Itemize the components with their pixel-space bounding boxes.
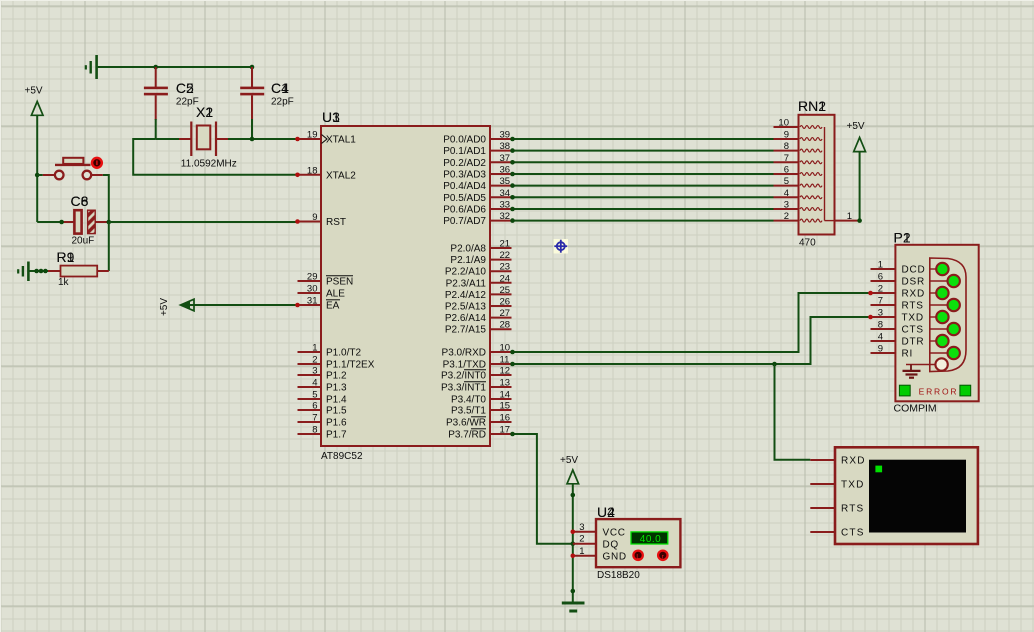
pin 31 EA (U3 left): [298, 296, 341, 312]
power +5V (RN1): [847, 121, 866, 221]
pin 3 TXD (P1): [871, 308, 924, 324]
junction dots on R9 ground wire: [34, 269, 39, 274]
pin 2 DQ (U2): [573, 534, 619, 551]
power +5V (reset circuit): [25, 86, 44, 223]
svg-text:+5V: +5V: [25, 86, 43, 97]
svg-text:TXD: TXD: [902, 313, 924, 324]
junction below +5V: [571, 493, 576, 498]
wire RST net to chip pin 9: [109, 221, 298, 223]
red dot COMPIM RXD: [868, 291, 873, 296]
svg-text:22pF: 22pF: [271, 97, 294, 108]
DB9 contact: [930, 311, 949, 323]
svg-text:DCD: DCD: [902, 265, 926, 276]
svg-text:38: 38: [500, 141, 511, 152]
svg-text:P3.3/INT1: P3.3/INT1: [441, 383, 486, 394]
wire C5 junction to crystal: [156, 138, 179, 140]
svg-text:CTS: CTS: [841, 528, 865, 539]
connector P1 COMPIM: [894, 230, 979, 415]
DB9 contact: [930, 335, 949, 347]
svg-text:XTAL2: XTAL2: [326, 170, 356, 181]
pin 3 P1.2 (U3 left): [298, 366, 348, 382]
svg-text:+5V: +5V: [847, 121, 865, 132]
button - (DS18B20 down): [633, 551, 642, 561]
pin 36 P0.3/AD3 (U3 right): [443, 165, 511, 181]
svg-text:C5: C5: [176, 80, 194, 96]
pin 25 P2.4/A12 (U3 right): [445, 285, 512, 301]
svg-text:P3.2/INT0: P3.2/INT0: [441, 371, 486, 382]
DB9 contact: [930, 347, 960, 359]
temperature display 40.0: [631, 532, 668, 545]
svg-text:470: 470: [799, 238, 816, 249]
pin 6 P1.5 (U3 left): [298, 401, 348, 417]
wire ground to R9: [28, 270, 48, 272]
pin 1 GND (U2): [573, 546, 627, 563]
svg-text:9: 9: [312, 212, 317, 223]
svg-text:4: 4: [878, 332, 883, 343]
wire P0.6 to RN1: [512, 208, 774, 210]
svg-text:P0.3/AD3: P0.3/AD3: [443, 170, 486, 181]
svg-text:18: 18: [307, 165, 318, 176]
svg-text:P1.2: P1.2: [326, 371, 347, 382]
svg-text:RXD: RXD: [841, 456, 866, 467]
svg-text:COMPIM: COMPIM: [894, 403, 937, 415]
svg-text:RTS: RTS: [902, 301, 924, 312]
pin 16 P3.6/WR (U3 right): [446, 413, 512, 429]
pin 19 XTAL1 (U3 left): [298, 130, 357, 146]
junction DQ net: [571, 541, 576, 546]
svg-text:P0.4/AD4: P0.4/AD4: [443, 181, 486, 192]
svg-text:P1.7: P1.7: [326, 430, 347, 441]
svg-text:27: 27: [500, 308, 511, 319]
svg-text:35: 35: [500, 176, 511, 187]
svg-text:6: 6: [312, 401, 317, 412]
pin 7 P1.6 (U3 left): [298, 413, 348, 429]
wire P0.1 to RN1: [512, 150, 774, 152]
pin 11 P3.1/TXD (U3 right): [443, 355, 512, 371]
DB9 outline inside P1: [930, 258, 966, 372]
svg-text:P0.0/AD0: P0.0/AD0: [443, 135, 486, 146]
red dot COMPIM TXD: [868, 315, 873, 320]
capacitor C8 20uF (electrolytic): [62, 193, 109, 247]
svg-text:EA: EA: [326, 301, 340, 312]
svg-text:P2.0/A8: P2.0/A8: [450, 244, 486, 255]
pin 4 DTR (P1): [871, 332, 925, 348]
svg-text:3: 3: [312, 366, 317, 377]
svg-text:20uF: 20uF: [72, 236, 95, 247]
svg-text:P2.2/A10: P2.2/A10: [445, 267, 487, 278]
svg-text:5: 5: [784, 176, 789, 187]
wire P0.0 to RN1: [512, 138, 774, 140]
svg-text:P1.0/T2: P1.0/T2: [326, 348, 361, 359]
svg-text:P3.7/RD: P3.7/RD: [448, 430, 486, 441]
pin 14 P3.4/T0 (U3 right): [451, 390, 512, 406]
wire C5 bottom to XTAL1 net: [155, 119, 157, 139]
svg-text:P2.7/A15: P2.7/A15: [445, 325, 487, 336]
pin 24 P2.3/A11 (U3 right): [446, 273, 512, 289]
DB9 contact: [930, 263, 949, 275]
red dot pin9: [295, 219, 300, 224]
virtual terminal: [810, 447, 978, 544]
svg-text:P1.4: P1.4: [326, 395, 347, 406]
svg-text:1: 1: [312, 343, 317, 354]
pin 9 RI (P1): [871, 344, 914, 360]
resistor R9 1k: [48, 249, 109, 288]
svg-text:8: 8: [878, 320, 883, 331]
svg-text:3: 3: [878, 308, 883, 319]
svg-text:9: 9: [878, 344, 883, 355]
svg-text:39: 39: [500, 130, 511, 141]
pin 39 P0.0/AD0 (U3 right): [443, 130, 511, 146]
svg-text:22: 22: [500, 250, 511, 261]
wire P0.3 to RN1: [512, 173, 774, 175]
svg-text:R9: R9: [57, 249, 75, 265]
pin 26 P2.5/A13 (U3 right): [445, 297, 512, 313]
junction C8 left: [59, 220, 64, 225]
svg-text:4: 4: [784, 188, 789, 199]
junction RN1 pin1 / +5V: [857, 218, 862, 223]
pin 1 P1.0/T2 (U3 left): [298, 343, 362, 359]
svg-text:P1.3: P1.3: [326, 383, 347, 394]
red dot pin18: [295, 173, 300, 178]
svg-text:X2: X2: [196, 104, 213, 120]
wire ground to C5/C4 tops: [97, 66, 252, 68]
svg-text:RST: RST: [326, 217, 346, 228]
svg-text:40.0: 40.0: [640, 534, 661, 545]
pin 29 PSEN (U3 left): [298, 272, 354, 288]
junction TXD / terminal branch: [772, 362, 777, 367]
pin 30 ALE (U3 left): [298, 284, 346, 300]
svg-text:P3.4/T0: P3.4/T0: [451, 395, 486, 406]
microcontroller U3 AT89C52: [321, 109, 490, 462]
pin 21 P2.0/A8 (U3 right): [450, 239, 511, 255]
pin 5 P1.4 (U3 left): [298, 390, 348, 406]
svg-text:P0.1/AD1: P0.1/AD1: [443, 146, 486, 157]
power +5V (EA pin): [159, 298, 298, 316]
wire P3.7/RD to DS18B20 DQ: [512, 434, 574, 544]
svg-text:16: 16: [500, 413, 511, 424]
pin 17 P3.7/RD (U3 right): [448, 425, 511, 441]
pin 10 P3.0/RXD (U3 right): [442, 343, 512, 359]
svg-text:P3.5/T1: P3.5/T1: [451, 406, 486, 417]
wire P3.1/TXD to COMPIM TXD: [512, 317, 871, 364]
svg-text:1: 1: [579, 546, 584, 557]
DB9 shell contact (white): [906, 358, 948, 370]
capacitor C4 22pF: [240, 67, 294, 120]
svg-text:23: 23: [500, 262, 511, 273]
svg-text:RI: RI: [902, 349, 914, 360]
svg-text:P1.1/T2EX: P1.1/T2EX: [326, 360, 375, 371]
pin 15 P3.5/T1 (U3 right): [451, 401, 512, 417]
pin 8 CTS (P1): [871, 320, 924, 336]
svg-text:8: 8: [312, 425, 317, 436]
push button (reset): [37, 158, 103, 180]
wire C4 bottom to XTAL1 net: [251, 119, 253, 139]
junction C8 right / RST net: [107, 220, 112, 225]
svg-text:6: 6: [784, 165, 789, 176]
svg-text:2: 2: [878, 284, 883, 295]
svg-text:P0.5/AD5: P0.5/AD5: [443, 193, 486, 204]
svg-text:RXD: RXD: [902, 289, 926, 300]
svg-text:U4: U4: [597, 504, 615, 520]
svg-text:P1.5: P1.5: [326, 406, 347, 417]
capacitor C5 22pF: [144, 67, 199, 120]
ground (DS18B20): [562, 603, 585, 611]
svg-text:4: 4: [312, 378, 317, 389]
wire C8 junction down to R9: [108, 222, 110, 271]
svg-text:r: r: [662, 554, 664, 560]
svg-text:30: 30: [307, 284, 318, 295]
svg-text:C4: C4: [271, 80, 289, 96]
svg-text:3: 3: [579, 522, 584, 533]
pin 1 DCD (P1): [871, 260, 926, 276]
svg-text:XTAL1: XTAL1: [326, 135, 356, 146]
svg-text:17: 17: [500, 425, 511, 436]
svg-text:P3.0/RXD: P3.0/RXD: [442, 348, 486, 359]
svg-text:36: 36: [500, 165, 511, 176]
svg-text:28: 28: [500, 320, 511, 331]
svg-text:VCC: VCC: [603, 527, 626, 538]
ground (COMPIM shell): [903, 365, 921, 378]
svg-text:13: 13: [500, 378, 511, 389]
svg-text:26: 26: [500, 297, 511, 308]
pin 35 P0.4/AD4 (U3 right): [443, 176, 511, 192]
svg-text:32: 32: [500, 211, 511, 222]
pin 32 P0.7/AD7 (U3 right): [443, 211, 511, 227]
svg-text:P0.2/AD2: P0.2/AD2: [443, 158, 486, 169]
svg-text:P2.6/A14: P2.6/A14: [445, 313, 487, 324]
svg-text:21: 21: [500, 239, 511, 250]
svg-text:P3.6/WR: P3.6/WR: [446, 418, 486, 429]
svg-text:34: 34: [500, 188, 511, 199]
origin marker: [554, 239, 569, 254]
sensor U2 DS18B20: [596, 504, 680, 581]
junction at C4 top: [250, 65, 255, 70]
pin 2 P1.1/T2EX (U3 left): [298, 355, 375, 371]
wire +5V line to C8: [37, 221, 61, 223]
pin 13 P3.3/INT1 (U3 right): [441, 378, 512, 394]
svg-text:ALE: ALE: [326, 289, 345, 300]
svg-text:2: 2: [312, 355, 317, 366]
svg-text:14: 14: [500, 390, 511, 401]
DB9 contact: [930, 275, 960, 287]
svg-text:DS18B20: DS18B20: [597, 570, 640, 581]
svg-text:31: 31: [307, 296, 318, 307]
svg-text:P0.7/AD7: P0.7/AD7: [443, 216, 486, 227]
svg-text:2: 2: [579, 534, 584, 545]
svg-text:7: 7: [784, 153, 789, 164]
wire button to C8 branch: [103, 175, 109, 222]
power +5V (DS18B20): [560, 455, 579, 602]
svg-text:1: 1: [847, 211, 852, 222]
svg-text:DTR: DTR: [902, 337, 925, 348]
svg-text:RN2: RN2: [798, 98, 826, 114]
pin 27 P2.6/A14 (U3 right): [445, 308, 512, 324]
svg-text:+5V: +5V: [159, 298, 170, 316]
svg-text:1: 1: [878, 260, 883, 271]
wire P3.0/RXD to COMPIM RXD: [512, 293, 871, 352]
wire P0.7 to RN1: [512, 220, 774, 222]
svg-text:3: 3: [784, 200, 789, 211]
pin 22 P2.1/A9 (U3 right): [450, 250, 511, 266]
svg-text:DSR: DSR: [902, 277, 926, 288]
pin 3 VCC (U2): [573, 522, 626, 539]
svg-text:29: 29: [307, 272, 318, 283]
svg-text:P2.1/A9: P2.1/A9: [450, 255, 486, 266]
pin 7 RTS (P1): [871, 296, 924, 312]
DB9 contact: [930, 323, 960, 335]
svg-text:P2: P2: [894, 230, 911, 246]
svg-text:5: 5: [312, 390, 317, 401]
wire P0.4 to RN1: [512, 185, 774, 187]
svg-text:TXD: TXD: [841, 480, 865, 491]
DB9 contact: [930, 299, 960, 311]
pin 12 P3.2/INT0 (U3 right): [441, 366, 512, 382]
svg-text:DQ: DQ: [603, 539, 619, 550]
pin 8 P1.7 (U3 left): [298, 425, 348, 441]
wire XTAL2 loop: [133, 139, 297, 175]
pin 34 P0.5/AD5 (U3 right): [443, 188, 511, 204]
svg-text:AT89C52: AT89C52: [321, 451, 363, 462]
svg-text:P2.3/A11: P2.3/A11: [446, 278, 487, 289]
svg-text:+5V: +5V: [560, 455, 578, 466]
svg-text:7: 7: [312, 413, 317, 424]
svg-text:PSEN: PSEN: [326, 277, 353, 288]
svg-text:6: 6: [878, 272, 883, 283]
junction crystal/C4/XTAL1: [250, 137, 255, 142]
clock mark on XTAL1: [322, 135, 328, 144]
wire TXD branch to terminal RXD: [775, 364, 811, 460]
pin 18 XTAL2 (U3 left): [298, 165, 357, 181]
svg-text:11: 11: [500, 355, 510, 366]
pin 4 P1.3 (U3 left): [298, 378, 348, 394]
wire crystal to XTAL1 pin: [228, 138, 298, 140]
svg-text:U3: U3: [322, 109, 340, 125]
svg-text:8: 8: [784, 141, 789, 152]
svg-text:ERROR: ERROR: [919, 387, 959, 397]
svg-text:33: 33: [500, 200, 511, 211]
svg-text:P2.4/A12: P2.4/A12: [445, 290, 487, 301]
svg-text:GND: GND: [603, 551, 627, 562]
ground (decoupling, sideways): [86, 55, 97, 79]
red dot U2 VCC: [571, 530, 576, 535]
svg-text:9: 9: [784, 130, 789, 141]
ERROR indicator squares: [899, 385, 910, 396]
crystal X1 11.0592MHz: [179, 104, 237, 170]
pin 33 P0.6/AD6 (U3 right): [443, 200, 511, 216]
svg-text:12: 12: [500, 366, 511, 377]
junction at C5 top: [153, 65, 158, 70]
svg-text:P3.1/TXD: P3.1/TXD: [443, 360, 486, 371]
pin 6 DSR (P1): [871, 272, 926, 288]
svg-text:P0.6/AD6: P0.6/AD6: [443, 205, 486, 216]
svg-text:25: 25: [500, 285, 511, 296]
svg-text:37: 37: [500, 153, 511, 164]
wire P0.5 to RN1: [512, 196, 774, 198]
svg-text:C8: C8: [71, 193, 89, 209]
pin 37 P0.2/AD2 (U3 right): [443, 153, 511, 169]
red dot pin19: [295, 137, 300, 142]
wire P0.2 to RN1: [512, 161, 774, 163]
svg-text:RTS: RTS: [841, 504, 864, 515]
svg-text:P2.5/A13: P2.5/A13: [445, 302, 487, 313]
svg-text:10: 10: [778, 118, 789, 129]
svg-text:1k: 1k: [58, 277, 70, 288]
svg-text:15: 15: [500, 401, 511, 412]
svg-text:P1.6: P1.6: [326, 418, 347, 429]
svg-text:10: 10: [500, 343, 511, 354]
svg-text:7: 7: [878, 296, 883, 307]
junction above ground: [571, 589, 576, 594]
svg-text:2: 2: [784, 211, 789, 222]
pin 9 RST (U3 left): [298, 212, 347, 228]
resistor network RN1 470: [774, 98, 860, 249]
svg-text:24: 24: [500, 273, 511, 284]
junction +5V/button: [35, 173, 40, 178]
svg-text:CTS: CTS: [902, 325, 924, 336]
svg-text:11.0592MHz: 11.0592MHz: [181, 159, 237, 170]
ground (R9, sideways): [18, 262, 28, 282]
pin 23 P2.2/A10 (U3 right): [445, 262, 512, 278]
pin 2 RXD (P1): [871, 284, 926, 300]
button + (DS18B20 up): [658, 551, 667, 561]
pin 38 P0.1/AD1 (U3 right): [443, 141, 511, 157]
pin 28 P2.7/A15 (U3 right): [445, 320, 512, 336]
svg-text:19: 19: [307, 130, 318, 141]
red dot pin31: [295, 303, 300, 308]
red dot U2 GND: [571, 554, 576, 559]
DB9 contact: [930, 287, 949, 299]
